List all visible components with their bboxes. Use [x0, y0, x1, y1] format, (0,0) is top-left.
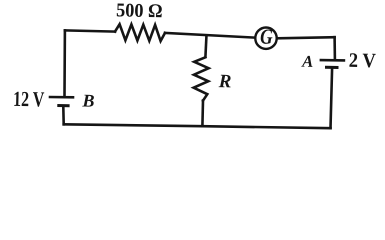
- wire resistor to galvanometer: [165, 33, 254, 38]
- node junction top of R: [205, 35, 206, 58]
- wire battery A to bottom-right corner: [331, 68, 333, 128]
- resistor R: [194, 57, 209, 100]
- wire top-left segment: [65, 30, 115, 31]
- wire bottom: [64, 124, 331, 128]
- svg-text:R: R: [218, 71, 232, 92]
- wire R to bottom junction: [201, 101, 204, 127]
- wire galvanometer to top-right corner: [278, 37, 335, 38]
- battery A long plate: [320, 59, 346, 62]
- wire battery B to bottom-left corner: [62, 107, 65, 125]
- battery B long plate: [49, 96, 75, 99]
- resistor 500 ohm: [115, 24, 165, 41]
- svg-text:2 V: 2 V: [349, 50, 377, 73]
- svg-text:B: B: [81, 91, 94, 111]
- svg-text:12 V: 12 V: [13, 87, 45, 112]
- battery A short plate: [325, 66, 339, 69]
- battery B short plate: [57, 104, 69, 107]
- svg-text:A: A: [301, 52, 313, 71]
- svg-text:500 Ω: 500 Ω: [116, 0, 163, 22]
- svg-text:G: G: [260, 24, 273, 48]
- galvanometer G circle: [255, 28, 276, 49]
- wire left branch top-left to battery B: [63, 30, 66, 96]
- wire right branch down to battery A: [333, 37, 336, 59]
